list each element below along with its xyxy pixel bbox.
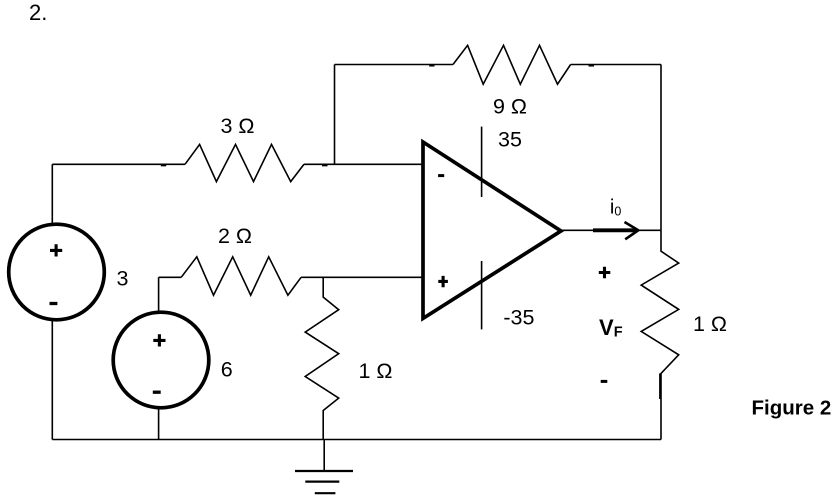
resistor 3 ohm zigzag: [185, 144, 304, 181]
ground bar 3: [315, 492, 336, 494]
resistor 2 ohm zigzag: [181, 257, 301, 295]
svg-text:3 Ω: 3 Ω: [221, 114, 255, 138]
wire: 2 ohm left vertical down to V2: [158, 277, 160, 313]
wire: V2 bottom lead: [158, 408, 160, 440]
problem number label "2.": [29, 0, 47, 25]
label 35 (positive supply): [498, 127, 522, 151]
ground bar 2: [305, 481, 339, 483]
wire: 2 ohm to op-amp non-inverting input: [301, 276, 423, 278]
ground bar 1: [295, 470, 353, 472]
V2 plus sign: [153, 334, 165, 346]
wire: V1 bottom lead: [51, 319, 53, 440]
resistor 9 ohm feedback zigzag: [453, 45, 571, 84]
label 3 ohm value: [221, 114, 255, 138]
resistor 1 ohm (load, vertical): [641, 230, 679, 439]
label 1 ohm (load): [693, 312, 727, 336]
svg-text:2 Ω: 2 Ω: [218, 224, 252, 248]
label VF: [599, 315, 623, 341]
label - (VF polarity): [601, 380, 608, 383]
svg-text:6: 6: [221, 357, 233, 381]
op-amp U1 triangle: [423, 142, 561, 318]
positive supply line: [481, 127, 483, 197]
svg-text:9 Ω: 9 Ω: [493, 94, 527, 118]
op-amp inverting input minus sign: [438, 174, 444, 177]
label 3 (source value): [117, 267, 129, 291]
svg-text:1 Ω: 1 Ω: [359, 359, 393, 383]
wire: 2 ohm left horizontal: [159, 276, 182, 278]
label 6 (source value): [221, 357, 233, 381]
label 9 ohm value: [493, 94, 527, 118]
label 1 ohm (middle): [359, 359, 393, 383]
V2 minus sign: [153, 391, 161, 394]
wire: 3 ohm to op-amp inverting input: [304, 163, 423, 165]
V1 minus sign: [50, 302, 58, 305]
svg-text:35: 35: [498, 127, 522, 151]
wire: left horizontal row to 3 ohm: [52, 163, 185, 165]
voltage source V1 circle: [9, 224, 105, 320]
voltage source V2 circle: [113, 312, 209, 408]
wire joint notch (left of 9 ohm): [429, 65, 434, 67]
wire: bottom rail: [52, 439, 661, 441]
op-amp non-inverting input plus sign: [438, 276, 448, 287]
label + (VF polarity): [599, 267, 611, 278]
wire joint notch (right of 9 ohm): [589, 65, 595, 67]
wire joint notch (right of 3 ohm): [322, 165, 328, 167]
label i0: [610, 196, 621, 218]
label Figure 2: [752, 397, 832, 420]
wire: feedback left vertical (node A to top rail): [334, 65, 336, 165]
wire: V1 top lead: [51, 164, 53, 225]
svg-text:3: 3: [117, 267, 129, 291]
current arrow i0 head: [625, 222, 639, 239]
V1 plus sign: [50, 244, 62, 256]
wire joint notch (left of 3 ohm): [161, 165, 166, 167]
current arrow i0 shaft: [593, 228, 636, 232]
svg-text:-35: -35: [503, 306, 534, 330]
load resistor bottom thick stub: [659, 373, 661, 399]
svg-text:Figure 2: Figure 2: [752, 397, 832, 420]
wire: top rail right segment: [571, 64, 661, 66]
ground stub: [323, 440, 325, 471]
svg-text:2.: 2.: [29, 0, 47, 25]
wire: op-amp output to load node: [561, 229, 661, 231]
label 2 ohm value: [218, 224, 252, 248]
svg-text:1 Ω: 1 Ω: [693, 312, 727, 336]
negative supply line: [481, 261, 483, 329]
label -35 (negative supply): [503, 306, 534, 330]
resistor 1 ohm (middle, vertical): [305, 277, 339, 439]
wire: top rail left segment: [335, 64, 454, 66]
wire: right vertical from top rail to output node: [660, 65, 662, 231]
